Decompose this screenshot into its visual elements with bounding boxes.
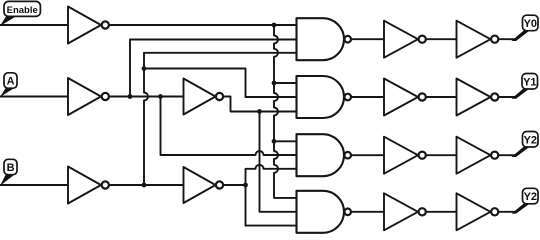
svg-text:Enable: Enable [7,5,38,16]
svg-text:A: A [7,75,15,87]
node A' to G3 branch [158,94,163,99]
inverter U10 [384,137,426,174]
output label Y2 [512,132,539,158]
svg-text:Y0: Y0 [524,18,537,30]
wire U9 to output label [499,96,516,98]
wire A' vertical to G3 input2 [161,97,297,156]
wire bus to G3 input1 [274,140,297,142]
wire A' row to mid inverter [110,96,184,98]
inverter U5 (B mid) [184,167,224,203]
wire B'' from U5 [223,184,245,186]
wire U6 to U7 [426,38,456,40]
output label Y1 [512,74,538,99]
input label A [0,73,17,97]
inverter U1 (Enable) [68,7,109,44]
inverter U6 [384,21,426,58]
node bus to G3 input1 [272,139,277,144]
output label Y2b [512,188,539,213]
nand gate G2 [297,76,352,118]
svg-text:B: B [7,162,15,174]
node bus to G2 input1 [272,81,277,86]
wire B' vertical riser [144,53,297,185]
wire B' row to mid inverter [110,184,184,186]
svg-text:Y2: Y2 [524,134,537,146]
inverter U13 [457,193,499,230]
wire A'' from U4 to G2 input3 [223,97,296,112]
wire A'' vertical to G4 input2 [260,112,297,212]
wire G3 output [351,154,384,156]
wire U10 to U11 [426,154,456,156]
wire U8 to U9 [426,96,456,98]
wire Enable input [0,24,68,26]
inverter U4 (A mid) [184,79,224,115]
wire U11 to output label [499,154,516,156]
wire Enable' bus vertical [274,25,297,198]
wire G2 output [351,96,384,98]
nand gate G4 [297,191,352,233]
node B' to wire4 tap [142,66,147,71]
wire U12 to U13 [426,211,456,213]
node B' branch [142,183,147,188]
node bus tap on Enable' row [272,23,277,28]
wire B' to G2 input2 [144,69,297,98]
inverter U3 (B) [68,167,109,204]
output label Y0 [512,15,539,41]
wire U13 to output label [499,211,516,213]
node A'' to G4 branch [257,109,262,114]
input label Enable [0,1,40,26]
wire Enable' to NAND G1 input1 [110,24,297,26]
wire B'' down to G4 input3 [246,185,297,226]
inverter U12 [384,193,426,230]
inverter U8 [384,79,426,116]
wire G1 output [351,38,384,40]
wire bus to G2 input1 [274,82,297,84]
node B'' branch [243,183,248,188]
wire U7 to output label [499,38,516,40]
nand gate G3 [297,134,352,176]
node A' to G1 branch [128,94,133,99]
wire G4 output [351,211,384,213]
svg-text:Y2: Y2 [524,191,537,203]
wire B input [0,184,68,186]
inverter U2 (A) [68,78,109,115]
wire A input [0,96,68,98]
wire A' vertical to G1 input2 [130,40,297,97]
svg-text:Y1: Y1 [523,76,536,88]
nand gate G1 [297,18,352,60]
input label B [0,159,17,186]
inverter U9 [457,79,499,116]
wire B'' up to G3 input3 [246,165,297,185]
inverter U7 [457,21,499,58]
inverter U11 [457,137,499,174]
